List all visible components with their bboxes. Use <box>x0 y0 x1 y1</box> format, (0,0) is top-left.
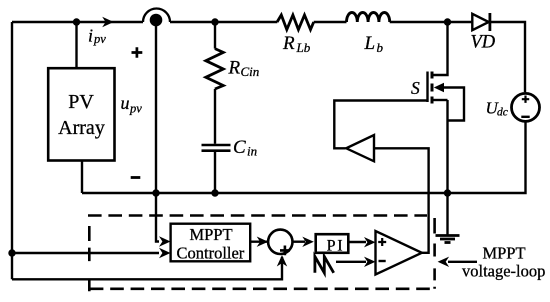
svg-text:in: in <box>247 144 257 159</box>
wire hop arc at node <box>143 9 170 23</box>
wire driver input from comparator <box>374 148 429 253</box>
wire Lb to diode <box>390 21 473 23</box>
diode VD <box>472 14 488 30</box>
wire PI to comparator <box>349 241 366 243</box>
plus mark inside Udc <box>522 96 529 103</box>
wire left vertical <box>11 22 13 279</box>
plus mark in summer <box>280 246 290 256</box>
driver buffer triangle <box>346 135 374 161</box>
svg-text:PI: PI <box>327 237 345 254</box>
dashed control box <box>88 214 427 217</box>
svg-text:pv: pv <box>129 102 142 116</box>
svg-text:pv: pv <box>93 32 106 46</box>
wire diode to right corner down <box>490 22 525 92</box>
wire MPPT controller to summer <box>250 240 276 242</box>
minus mark inside Udc <box>521 116 529 118</box>
transistor S body arrow <box>434 83 444 92</box>
summing junction <box>268 230 292 254</box>
svg-text:dc: dc <box>497 107 508 119</box>
svg-text:voltage-loop: voltage-loop <box>462 261 545 280</box>
capacitor Cin <box>202 144 231 147</box>
resistor RLb <box>277 15 314 30</box>
plus mark upv <box>132 47 143 58</box>
node dot left branch <box>8 249 15 256</box>
minus mark comparator <box>379 260 386 262</box>
wire body tie loop <box>443 88 464 121</box>
wire Udc bottom to corner <box>524 121 526 193</box>
svg-text:PV: PV <box>68 91 94 113</box>
svg-text:S: S <box>411 78 420 98</box>
PV Array box <box>48 68 114 160</box>
wire RCin to Cin <box>214 89 216 144</box>
node dot Cin bottom <box>211 189 218 196</box>
transistor S gate bar <box>426 72 428 103</box>
resistor RCin <box>206 49 224 89</box>
svg-text:MPPT: MPPT <box>189 225 232 244</box>
plus mark comparator <box>378 238 386 246</box>
svg-text:Lb: Lb <box>296 40 311 55</box>
svg-text:VD: VD <box>471 33 496 53</box>
arrow into summer <box>257 237 269 247</box>
svg-text:MPPT: MPPT <box>482 244 525 263</box>
comparator triangle <box>376 231 422 275</box>
arrow into PI <box>302 237 314 247</box>
svg-text:Controller: Controller <box>176 244 244 263</box>
wire summer to PI <box>293 240 306 242</box>
wire RCin top lead <box>214 22 216 49</box>
wire PV bottom lead <box>81 161 83 194</box>
source Udc circle <box>512 93 540 121</box>
wire source stub <box>434 99 448 101</box>
arrow into MPPT controller input 2 <box>159 248 171 258</box>
svg-text:u: u <box>121 93 130 113</box>
node dot source bottom wire <box>444 189 451 196</box>
MPPT controller box <box>171 224 251 262</box>
node dot drain top <box>444 18 451 25</box>
wire source down to ground <box>446 100 448 235</box>
arrow up into summer bottom <box>277 255 287 267</box>
minus mark upv <box>131 176 141 179</box>
wire Cin bottom lead <box>214 152 216 193</box>
wire sensing vertical from hop down into controller <box>156 22 159 242</box>
wire MOSFET drain <box>433 22 448 75</box>
svg-text:Array: Array <box>58 117 105 139</box>
svg-text:C: C <box>233 137 246 158</box>
ground <box>436 234 460 237</box>
svg-text:i: i <box>88 26 93 46</box>
svg-text:b: b <box>377 40 384 55</box>
node big dot at hop <box>150 14 163 27</box>
wire gate lead from driver <box>334 101 427 149</box>
wire top horizontal left segment <box>12 21 143 23</box>
node dot RCin top <box>211 18 218 25</box>
svg-text:L: L <box>364 33 376 54</box>
wire sawtooth to comparator <box>336 261 366 263</box>
arrow into comparator plus <box>364 237 376 247</box>
sawtooth carrier symbol <box>315 257 334 273</box>
arrow ipv on top wire <box>102 17 114 27</box>
arrow into MPPT controller input 1 <box>159 236 171 246</box>
inductor Lb <box>347 12 390 22</box>
svg-text:R: R <box>228 58 241 79</box>
svg-text:Cin: Cin <box>241 64 260 79</box>
transistor S channel segments <box>431 72 434 104</box>
arrow MPPT voltage-loop <box>448 261 477 263</box>
wire between RLb and Lb <box>314 21 347 23</box>
wire bottom horizontal <box>82 192 524 194</box>
node dot PV top <box>73 18 80 25</box>
wire bottom feedback to summer <box>12 257 282 279</box>
PI box <box>316 234 349 253</box>
wire PV top lead <box>75 22 77 68</box>
svg-text:R: R <box>282 33 295 54</box>
arrow into comparator minus <box>364 257 376 267</box>
wire left branch to MPPT controller <box>12 252 159 254</box>
wire top horizontal mid segment <box>170 21 277 23</box>
node dot bottom wire x156 <box>152 189 159 196</box>
